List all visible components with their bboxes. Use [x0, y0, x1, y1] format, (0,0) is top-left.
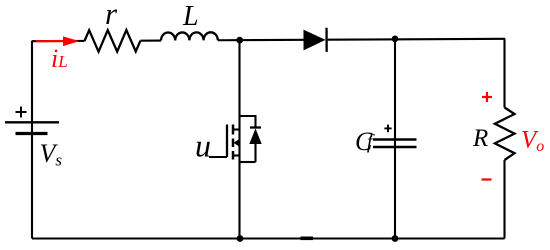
battery Vs plates [5, 122, 59, 133]
resistor R [495, 108, 515, 161]
polarity + output [482, 92, 492, 102]
svg-text:Vs: Vs [40, 139, 63, 170]
node B top junction at capacitor branch [392, 36, 399, 43]
battery polarity + [16, 107, 27, 118]
wire left branch [31, 41, 33, 239]
capacitor polarity + [384, 125, 391, 133]
top rail group (slight scan tilt) [32, 27, 505, 54]
wire top rail segment 2 [140, 39, 161, 41]
wire output branch bottom [503, 160, 505, 239]
capacitor Cf plates [373, 140, 417, 148]
wire bottom rail thick overlap segment [301, 237, 314, 241]
current arrow iL [36, 40, 66, 42]
wire capacitor branch [394, 39, 396, 239]
diode D1 [303, 30, 325, 51]
svg-text:L: L [182, 1, 199, 32]
mosfet body arrow [234, 139, 240, 147]
body diode of Q1 [240, 116, 262, 162]
wire top rail segment 4 [327, 38, 505, 41]
svg-text:R: R [472, 125, 488, 152]
polarity - output [482, 178, 492, 180]
inductor L [161, 32, 218, 40]
resistor r [84, 30, 140, 52]
wire bottom rail [32, 237, 505, 239]
wire switch branch [238, 40, 240, 239]
node C bottom junction 1 [237, 235, 244, 242]
svg-text:r: r [105, 0, 118, 31]
wire top rail segment 1 [32, 40, 84, 42]
svg-text:Cf: Cf [355, 127, 375, 156]
wire top rail segment 3 [218, 39, 304, 42]
svg-text:iL: iL [51, 44, 68, 73]
svg-text:u: u [195, 128, 211, 164]
wire output branch top [503, 39, 505, 108]
node A top junction at switch branch [236, 37, 243, 44]
mosfet Q1 switch [209, 125, 240, 160]
node D bottom junction 2 [392, 235, 399, 242]
svg-text:Vo: Vo [521, 127, 544, 156]
